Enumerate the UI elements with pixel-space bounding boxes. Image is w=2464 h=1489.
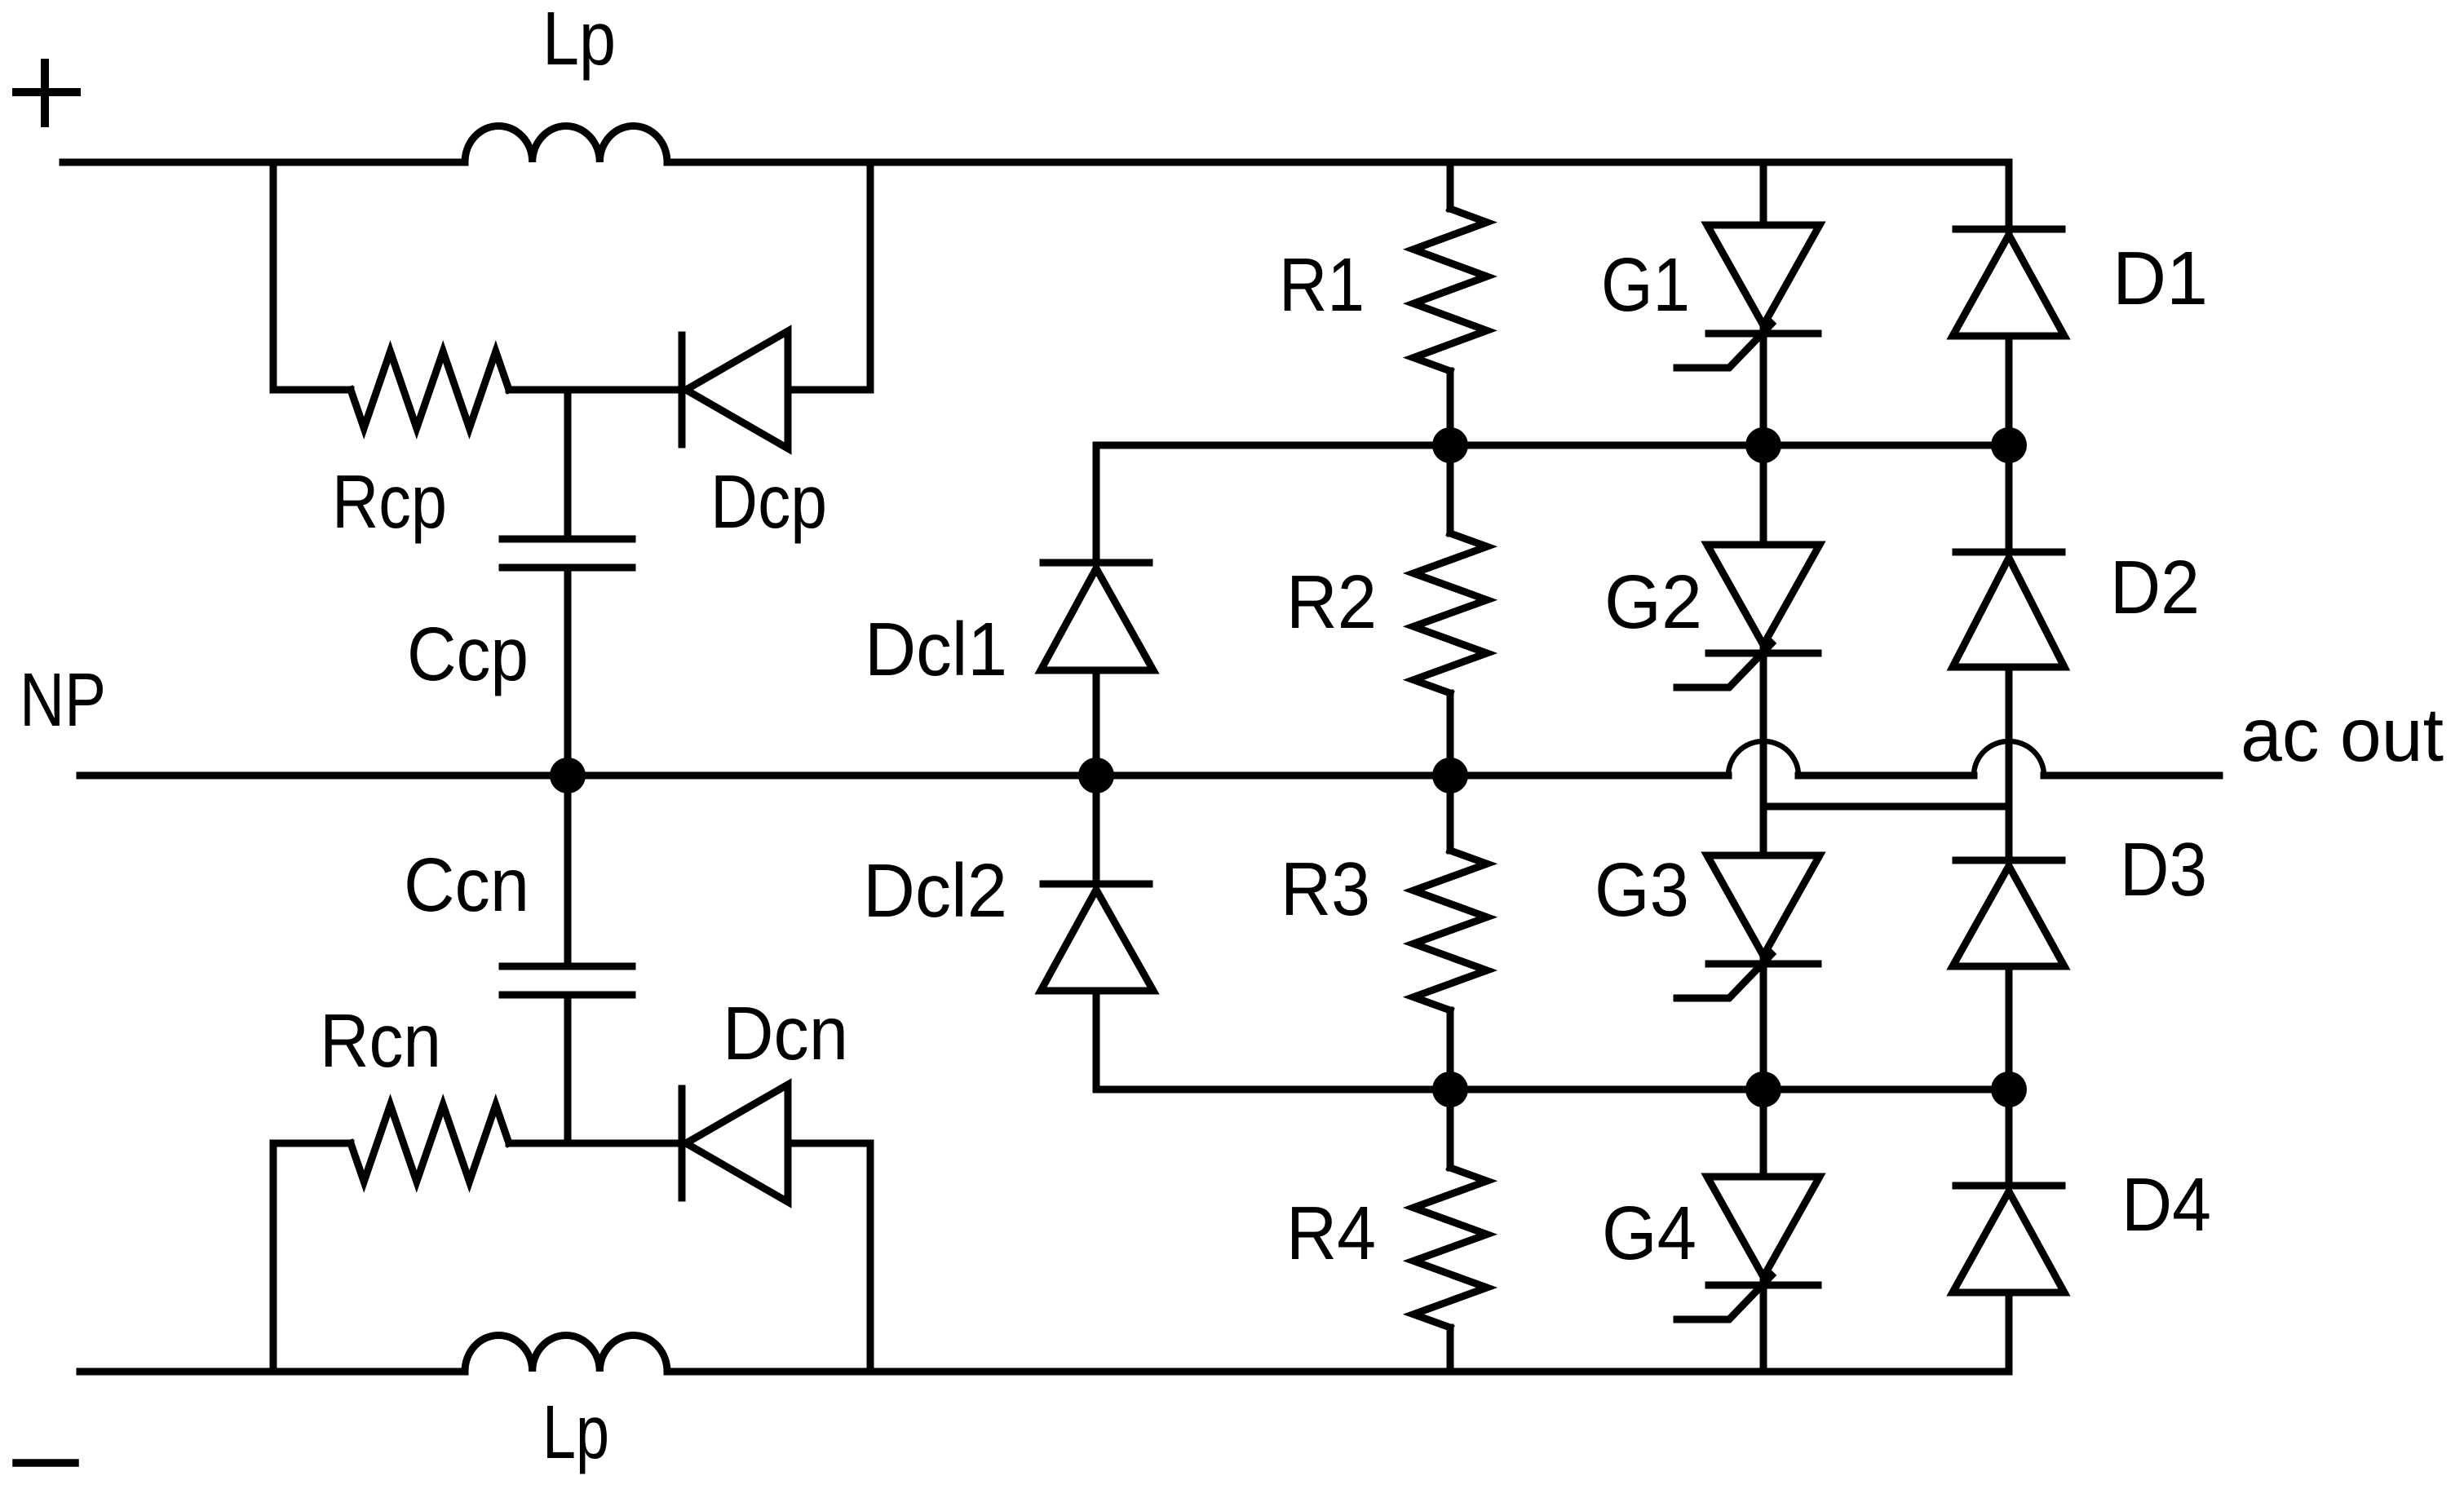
svg-text:ac out: ac out <box>2241 692 2444 777</box>
diode D2 (cathode bar) <box>1956 549 2062 556</box>
svg-text:G2: G2 <box>1604 559 1702 644</box>
diode D4 (cathode bar) <box>1956 1182 2062 1190</box>
node: junction dot NP x Dcl column <box>1078 758 1114 793</box>
wire: Dcl1 cathode lead from bus <box>1093 445 1100 563</box>
capacitor Ccp <box>502 539 632 568</box>
diode Dcl2 (cathode bar) <box>1043 881 1149 888</box>
wire: Rcn to Dcn <box>509 1140 682 1147</box>
svg-text:Rcp: Rcp <box>332 459 447 544</box>
svg-text:Ccn: Ccn <box>404 842 529 927</box>
thyristor G2 gate <box>1677 643 1772 687</box>
wire: Ccp to NP rail <box>564 568 572 775</box>
thyristor G3 gate <box>1677 954 1772 998</box>
diode Dcp (triangle pointing left) <box>686 331 788 448</box>
svg-text:Dcp: Dcp <box>710 459 827 544</box>
wire: snubber loop left drop (bottom) <box>270 1143 277 1372</box>
svg-text:D1: D1 <box>2112 236 2208 320</box>
wire: G2 cathode down through rail hop to G3 <box>1760 645 1767 855</box>
svg-text:Lp: Lp <box>542 0 616 81</box>
node: junction dot NP x R column <box>1432 758 1468 793</box>
svg-text:Lp: Lp <box>542 1390 609 1474</box>
resistor R4 top stub <box>1447 1089 1454 1168</box>
wire: G4 cathode to bottom rail <box>1760 1277 1767 1372</box>
resistor R3 top stub <box>1447 775 1454 851</box>
svg-text:Dcl1: Dcl1 <box>865 607 1007 691</box>
node: junction dot bus B x R column <box>1432 1071 1468 1107</box>
resistor R3 <box>1413 851 1487 1010</box>
wire: D3 anode to bus B <box>2006 966 2013 1089</box>
resistor R4 <box>1413 1168 1487 1328</box>
svg-text:G1: G1 <box>1601 242 1690 327</box>
thyristor G1 cathode bar <box>1709 330 1818 338</box>
wire: D1 cathode lead from top rail <box>2006 162 2013 235</box>
wire: D2 anode down through rail hop to D3 <box>2006 667 2013 860</box>
wire: upper node bus (node A) <box>1096 442 2009 449</box>
thyristor G2 cathode bar <box>1709 650 1818 657</box>
wire: bus A down to D2 <box>2006 445 2013 552</box>
svg-text:G4: G4 <box>1602 1191 1696 1275</box>
node: junction dot bus A x R column <box>1432 427 1468 463</box>
diode Dcp (cathode bar) <box>679 335 686 444</box>
diode D1 (triangle pointing up) <box>1953 235 2064 336</box>
wire: D4 anode to bottom rail <box>2006 1292 2013 1372</box>
wire: Dcl1 anode to NP rail <box>1093 670 1100 775</box>
node: junction dot bus B x G column <box>1745 1071 1781 1107</box>
resistor Rcn <box>351 1105 509 1182</box>
thyristor G1 anode lead <box>1760 162 1767 225</box>
thyristor G2 anode lead <box>1760 445 1767 545</box>
wire: Ccn to bottom branch <box>564 995 572 1143</box>
positive terminal "+" <box>16 63 77 123</box>
wire: lower node bus (node B) <box>1096 1086 2009 1094</box>
diode D2 (triangle pointing up) <box>1953 558 2064 667</box>
wire: NP rail down to Ccn <box>564 775 572 966</box>
diode D3 (cathode bar) <box>1956 857 2062 864</box>
wire: bottom dc rail right segment <box>667 1368 2009 1376</box>
diode D1 (cathode bar) <box>1956 226 2062 233</box>
svg-text:G3: G3 <box>1595 847 1689 932</box>
thyristor G4 (triangle pointing down) <box>1707 1177 1820 1277</box>
wire: G3 cathode to bus B <box>1760 956 1767 1089</box>
wire: NP rail down to Dcl2 <box>1093 775 1100 884</box>
wire: top dc rail left segment <box>63 159 465 166</box>
wire: Rcp to Dcp <box>509 387 682 394</box>
resistor Rcp <box>351 351 509 428</box>
resistor R1 bottom stub <box>1447 371 1454 445</box>
svg-text:Dcn: Dcn <box>723 991 848 1076</box>
wire: D1 anode to bus A <box>2006 336 2013 445</box>
thyristor G4 cathode bar <box>1709 1282 1818 1289</box>
node: junction dot bus A x D column <box>1991 427 2027 463</box>
svg-text:Dcl2: Dcl2 <box>863 848 1007 933</box>
thyristor G1 (triangle pointing down) <box>1707 225 1820 325</box>
svg-text:R2: R2 <box>1286 559 1377 644</box>
svg-text:D3: D3 <box>2120 827 2207 912</box>
diode Dcl2 (triangle pointing up) <box>1041 890 1153 991</box>
diode D4 (triangle pointing up) <box>1953 1191 2064 1292</box>
inductor Lp (bottom) <box>465 1335 667 1372</box>
diode Dcn (triangle pointing left) <box>686 1085 788 1202</box>
svg-text:D2: D2 <box>2110 545 2200 630</box>
svg-text:D4: D4 <box>2121 1162 2211 1247</box>
wire: snubber loop right drop (top) <box>867 162 874 390</box>
diode Dcl1 (cathode bar) <box>1043 559 1149 567</box>
wire hop over D column <box>1974 741 2044 775</box>
node: junction dot bus B x D column <box>1991 1071 2027 1107</box>
wire: top dc rail right segment <box>667 159 2009 166</box>
diode D3 (triangle pointing up) <box>1953 866 2064 966</box>
resistor R2 top stub <box>1447 445 1454 533</box>
inductor Lp (top) <box>465 126 667 162</box>
node: junction dot NP x Ccp column <box>550 758 586 793</box>
svg-text:R4: R4 <box>1286 1191 1376 1275</box>
resistor R2 <box>1413 533 1487 693</box>
wire: branch to Rcn <box>273 1140 351 1147</box>
thyristor G3 cathode bar <box>1709 961 1818 968</box>
resistor R3 bottom stub <box>1447 1010 1454 1089</box>
svg-text:R3: R3 <box>1281 846 1370 931</box>
wire: snubber loop right drop (bottom) <box>867 1143 874 1372</box>
wire: bus B down to D4 <box>2006 1089 2013 1186</box>
thyristor G4 anode lead <box>1760 1089 1767 1177</box>
resistor R4 bottom stub <box>1447 1328 1454 1372</box>
wire: snubber loop left drop (top) <box>270 162 277 390</box>
wire: Dcp to right drop <box>788 387 870 394</box>
thyristor G3 (triangle pointing down) <box>1707 855 1820 956</box>
resistor R1 <box>1413 209 1487 371</box>
wire: middle NP / ac out rail with hops over G and D columns <box>80 772 1728 780</box>
resistor R2 bottom stub <box>1447 693 1454 775</box>
svg-text:NP: NP <box>20 657 106 742</box>
thyristor G1 gate <box>1677 324 1772 368</box>
wire: G1 cathode to bus A <box>1760 325 1767 445</box>
thyristor G2 (triangle pointing down) <box>1707 545 1820 645</box>
wire: branch to Rcp <box>273 387 351 394</box>
wire: branch junction down to Ccp <box>564 390 572 539</box>
svg-text:Rcn: Rcn <box>320 998 441 1083</box>
diode Dcn (cathode bar) <box>679 1089 686 1198</box>
negative terminal "-" <box>16 1459 75 1467</box>
resistor R1 top stub <box>1447 162 1454 209</box>
svg-text:Ccp: Ccp <box>407 612 529 696</box>
wire: Dcl2 anode down to lower bus <box>1093 991 1100 1089</box>
diode Dcl1 (triangle pointing up) <box>1041 568 1153 670</box>
wire: bottom dc rail left segment <box>80 1368 465 1376</box>
node: junction dot bus A x G column <box>1745 427 1781 463</box>
capacitor Ccn <box>502 966 632 995</box>
thyristor G4 gate <box>1677 1275 1772 1319</box>
svg-text:R1: R1 <box>1279 242 1365 327</box>
wire hop over G column <box>1728 741 1798 775</box>
wire: G-D connector below ac rail <box>1763 803 2009 811</box>
wire: Dcn to right drop <box>788 1140 870 1147</box>
